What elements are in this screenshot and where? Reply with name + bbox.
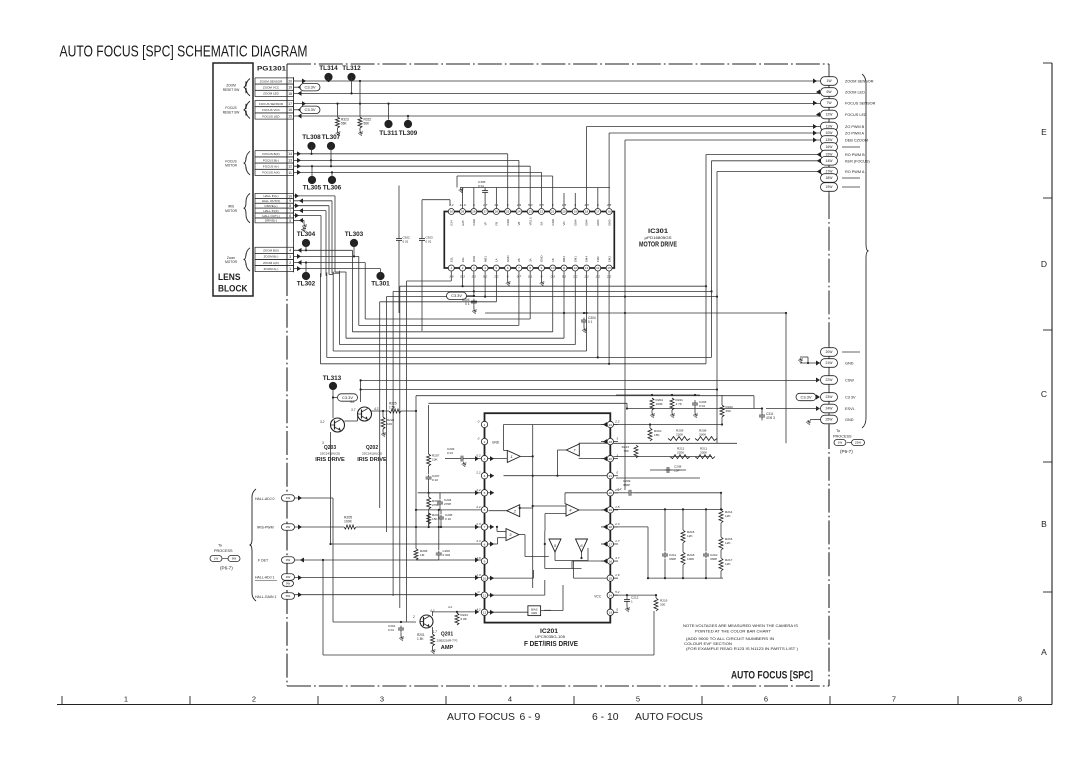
svg-text:11: 11 [483,594,486,598]
svg-text:2.2: 2.2 [475,505,481,509]
svg-text:RESET SW: RESET SW [223,110,240,114]
svg-text:2: 2 [484,440,486,444]
svg-text:DRIVE(-): DRIVE(-) [265,219,277,223]
svg-text:SA: SA [540,222,544,226]
svg-text:220K: 220K [677,451,685,455]
svg-text:TL308: TL308 [302,134,321,141]
svg-text:15K: 15K [654,433,660,437]
svg-text:18: 18 [585,210,589,214]
svg-text:TL314: TL314 [319,65,338,72]
svg-text:AUTO FOCUS: AUTO FOCUS [635,712,703,723]
svg-text:VCC: VCC [594,595,601,599]
svg-text:1: 1 [289,267,291,271]
svg-text:RO PWM A: RO PWM A [845,170,865,174]
svg-text:2.2: 2.2 [614,420,620,424]
svg-text:(FOR EXAMPLE READ R123 IS N112: (FOR EXAMPLE READ R123 IS N1123 IN PARTS… [686,646,799,651]
svg-text:8: 8 [1018,695,1022,704]
svg-text:MOTOR: MOTOR [225,209,238,213]
svg-text:3W: 3W [286,558,291,562]
svg-text:0 1: 0 1 [588,320,593,324]
svg-text:HALL OUT(X): HALL OUT(X) [262,199,281,203]
svg-text:POINTED AT THE COLOR BAR CHART: POINTED AT THE COLOR BAR CHART [695,629,772,634]
svg-text:TL309: TL309 [399,130,418,137]
svg-text:PG1301: PG1301 [257,66,287,73]
svg-text:E1L: E1L [461,256,465,262]
svg-text:3.7: 3.7 [351,408,356,412]
svg-text:LENS: LENS [218,272,241,283]
svg-text:10: 10 [288,194,292,198]
svg-text:(P6-7): (P6-7) [220,566,233,571]
svg-text:12: 12 [288,165,292,169]
svg-text:ESVL: ESVL [845,407,855,411]
svg-text:8: 8 [289,204,291,208]
svg-text:4W: 4W [286,575,291,579]
svg-text:0: 0 [616,607,618,611]
svg-text:19: 19 [574,210,578,214]
svg-text:FOCUS SENSOR: FOCUS SENSOR [259,102,284,106]
svg-text:4: 4 [484,474,486,478]
svg-text:DRIVE(+): DRIVE(+) [265,204,278,208]
svg-text:1M: 1M [420,553,425,557]
svg-text:0.2: 0.2 [476,454,481,458]
svg-text:3: 3 [616,437,618,441]
svg-text:12K: 12K [725,514,731,518]
svg-text:2SC2411K(C0): 2SC2411K(C0) [320,452,340,456]
svg-text:0 01: 0 01 [426,240,432,244]
svg-text:1: 1 [484,423,486,427]
svg-text:TL302: TL302 [297,281,316,288]
svg-text:EM2: EM2 [607,256,611,262]
svg-text:0 01: 0 01 [403,240,409,244]
svg-text:E: E [1041,127,1047,137]
svg-text:2.3: 2.3 [475,573,481,577]
svg-text:28: 28 [472,210,476,214]
svg-text:1M2: 1M2 [596,256,600,262]
svg-text:GND: GND [506,256,510,262]
svg-text:DEB CZOOM: DEB CZOOM [845,139,868,143]
svg-text:RESET SW: RESET SW [223,88,240,92]
svg-text:25W: 25W [826,418,834,422]
svg-text:18: 18 [609,525,613,529]
svg-text:19: 19 [288,86,292,90]
svg-text:ZOOM SENSOR: ZOOM SENSOR [260,79,283,83]
svg-text:22: 22 [540,210,544,214]
svg-text:1W: 1W [826,79,832,83]
svg-text:C3.3V: C3.3V [304,107,315,112]
svg-text:MOTOR DRIVE: MOTOR DRIVE [639,242,677,249]
svg-text:330: 330 [660,603,665,607]
svg-text:EM4: EM4 [596,219,600,225]
svg-text:17W: 17W [826,170,834,174]
svg-text:15: 15 [607,266,611,270]
svg-text:0: 0 [478,437,480,441]
svg-text:ZOOM VCC: ZOOM VCC [263,86,280,90]
svg-text:RSD: RSD [472,256,476,262]
svg-text:330P: 330P [623,483,630,487]
svg-text:6 - 10: 6 - 10 [592,712,619,723]
svg-text:TL311: TL311 [379,130,398,137]
svg-text:12K: 12K [725,562,731,566]
svg-text:3: 3 [616,454,618,458]
svg-text:3A: 3A [528,258,532,262]
svg-text:GEN: GEN [531,611,537,615]
svg-text:1 5K: 1 5K [389,406,396,410]
svg-text:11: 11 [288,171,292,175]
svg-text:0 01: 0 01 [478,184,484,188]
svg-text:E25: E25 [461,220,465,226]
svg-text:AMP: AMP [441,645,454,651]
svg-text:2.3: 2.3 [475,522,481,526]
svg-text:VB: VB [517,222,521,226]
svg-text:25W: 25W [855,441,861,445]
svg-text:22: 22 [609,457,613,461]
svg-text:To: To [218,544,222,548]
svg-text:14: 14 [609,594,613,598]
svg-text:PROCESS: PROCESS [833,435,852,439]
svg-text:MB1: MB1 [483,256,487,262]
svg-text:20W: 20W [826,350,834,354]
svg-text:9W: 9W [286,582,291,586]
svg-text:μPD16805GS: μPD16805GS [645,236,673,240]
svg-text:FB: FB [495,222,499,226]
svg-text:GND: GND [540,256,544,262]
svg-text:FOCUS A(X): FOCUS A(X) [262,171,279,175]
svg-text:15: 15 [609,576,613,580]
svg-text:330K: 330K [700,451,708,455]
svg-text:16: 16 [607,210,611,214]
svg-text:1W: 1W [838,441,843,445]
svg-text:0: 0 [616,471,618,475]
svg-text:HALL OUT(-): HALL OUT(-) [262,214,280,218]
svg-text:To: To [836,429,840,433]
svg-text:1.9: 1.9 [615,573,620,577]
svg-text:TL307: TL307 [322,134,341,141]
svg-text:ZOOM A(-): ZOOM A(-) [264,267,279,271]
svg-text:HALL-ADJ 1: HALL-ADJ 1 [255,576,275,580]
svg-text:3.7: 3.7 [615,556,620,560]
svg-text:21W: 21W [826,361,834,365]
svg-text:7: 7 [484,525,486,529]
svg-text:6: 6 [289,214,291,218]
svg-text:7: 7 [289,209,291,213]
svg-text:75K: 75K [623,449,629,453]
svg-text:6W: 6W [826,90,832,94]
svg-text:FOCUS B(X): FOCUS B(X) [262,152,279,156]
svg-text:IRIS DRIVE: IRIS DRIVE [315,457,345,463]
svg-text:0 10: 0 10 [445,517,451,521]
svg-text:0: 0 [478,420,480,424]
svg-text:VF: VF [483,222,487,226]
svg-text:GND: GND [472,219,476,225]
svg-text:2.2: 2.2 [475,471,481,475]
svg-text:4: 4 [289,249,291,253]
svg-text:24: 24 [609,423,613,427]
svg-text:5: 5 [289,219,291,223]
svg-text:FOCUS VCC: FOCUS VCC [262,108,281,112]
svg-text:TL306: TL306 [323,185,342,192]
svg-text:11: 11 [562,266,565,270]
svg-text:B: B [1041,519,1047,529]
svg-text:PROCESS: PROCESS [214,549,233,553]
svg-text:56K: 56K [364,122,371,126]
svg-text:1: 1 [124,695,128,704]
svg-text:FOCUS LED: FOCUS LED [845,113,867,117]
svg-text:VR2.3: VR2.3 [528,217,532,225]
svg-text:5: 5 [636,695,640,704]
svg-text:AUTO FOCUS [SPC]: AUTO FOCUS [SPC] [731,670,813,682]
svg-text:7W: 7W [826,101,832,105]
svg-text:7: 7 [892,695,896,704]
svg-text:1W: 1W [214,557,219,561]
svg-text:10K: 10K [432,458,438,462]
svg-text:12W: 12W [826,113,834,117]
svg-text:3: 3 [380,695,384,704]
svg-text:6 8K: 6 8K [461,617,468,621]
svg-text:GND: GND [506,219,510,225]
svg-text:0 01: 0 01 [699,404,705,408]
svg-text:30: 30 [450,210,454,214]
svg-text:100: 100 [387,422,392,426]
svg-text:6: 6 [484,508,486,512]
svg-text:Q203: Q203 [324,445,336,451]
svg-text:19: 19 [609,508,613,512]
svg-text:0 002: 0 002 [443,553,451,557]
svg-text:4.2: 4.2 [448,605,453,609]
svg-text:E34: E34 [450,220,454,226]
svg-text:9: 9 [289,199,291,203]
svg-text:HALL-ADJ 0: HALL-ADJ 0 [255,497,275,501]
svg-text:1W: 1W [286,496,291,500]
svg-text:4.8: 4.8 [476,556,481,560]
svg-text:5: 5 [484,491,486,495]
svg-text:2W: 2W [286,525,291,529]
svg-text:11W: 11W [826,125,834,129]
svg-text:25: 25 [506,210,510,214]
svg-text:TL304: TL304 [297,231,316,238]
svg-text:18W: 18W [826,176,834,180]
svg-text:1: 1 [631,600,633,604]
svg-text:23W: 23W [826,395,834,399]
svg-text:A: A [1041,647,1047,657]
svg-text:TL301: TL301 [371,281,390,288]
svg-text:12: 12 [483,611,487,615]
svg-text:EM4: EM4 [585,219,589,225]
svg-text:4: 4 [508,695,512,704]
svg-text:13: 13 [585,266,589,270]
svg-text:FOCUS A(-): FOCUS A(-) [263,165,279,169]
svg-text:10: 10 [551,266,555,270]
svg-text:21: 21 [609,474,613,478]
svg-text:C3.3V: C3.3V [451,293,462,298]
svg-text:6: 6 [764,695,768,704]
svg-text:ZOOM SENSOR: ZOOM SENSOR [845,80,874,84]
svg-text:1 5K: 1 5K [417,637,424,641]
svg-text:12: 12 [574,266,578,270]
svg-text:C3.3V: C3.3V [304,85,315,90]
svg-text:1.5: 1.5 [615,505,620,509]
svg-text:ZO PWM B: ZO PWM B [845,125,865,129]
svg-text:Q202: Q202 [366,445,378,451]
svg-text:56K: 56K [341,122,348,126]
svg-text:RO PWM B: RO PWM B [845,153,865,157]
svg-text:10W: 10W [826,131,834,135]
svg-text:GND: GND [492,441,500,445]
svg-text:HALL IN(X): HALL IN(X) [263,209,278,213]
svg-text:8: 8 [484,542,486,546]
svg-text:FOCUS LED: FOCUS LED [262,114,280,118]
svg-text:22W: 22W [826,378,834,382]
svg-text:330P: 330P [669,557,676,561]
svg-text:0 01: 0 01 [388,628,394,632]
svg-text:13: 13 [288,158,292,162]
svg-text:16: 16 [609,559,613,563]
svg-text:27: 27 [483,210,487,214]
svg-text:14: 14 [596,266,600,270]
svg-text:C3.3V: C3.3V [800,394,811,399]
svg-text:12K: 12K [725,541,731,545]
svg-text:F DET: F DET [258,559,269,563]
svg-text:AUTO FOCUS [SPC] SCHEMATIC DIA: AUTO FOCUS [SPC] SCHEMATIC DIAGRAM [60,44,308,61]
svg-text:EM4: EM4 [585,256,589,262]
svg-text:21: 21 [551,210,555,214]
svg-text:NOTE:VOLTAGES ARE MEASURED WHE: NOTE:VOLTAGES ARE MEASURED WHEN THE CAME… [683,623,798,628]
svg-text:6W: 6W [232,557,237,561]
svg-text:10: 10 [483,576,487,580]
svg-text:2SB2216R-T70: 2SB2216R-T70 [437,639,458,643]
svg-text:ZOOM LED: ZOOM LED [845,91,865,95]
svg-text:24W: 24W [826,407,834,411]
svg-text:C3 3V: C3 3V [845,396,856,400]
svg-text:(P6-7): (P6-7) [840,449,853,454]
svg-text:TL313: TL313 [323,375,342,382]
svg-text:20: 20 [562,210,566,214]
svg-text:TL312: TL312 [342,65,361,72]
svg-text:5.2: 5.2 [615,590,620,594]
svg-text:GND: GND [845,362,854,366]
svg-text:KER (FOCUS): KER (FOCUS) [845,159,870,163]
svg-text:BLOCK: BLOCK [218,284,248,295]
svg-text:CSW: CSW [845,379,854,383]
svg-text:EM4: EM4 [573,219,577,225]
svg-text:3: 3 [289,255,291,259]
svg-text:Q201: Q201 [441,632,453,638]
svg-text:29: 29 [461,210,465,214]
svg-text:330P: 330P [710,557,717,561]
svg-text:0 22: 0 22 [432,478,438,482]
svg-text:0 01: 0 01 [447,451,453,455]
svg-text:ZO PWM A: ZO PWM A [845,132,864,136]
svg-text:ZOOM LED: ZOOM LED [263,92,280,96]
svg-text:14W: 14W [826,159,834,163]
svg-text:IC201: IC201 [540,628,558,635]
svg-text:C: C [1041,389,1047,399]
svg-text:4.2: 4.2 [476,607,481,611]
svg-text:20: 20 [288,79,292,83]
svg-text:EM1: EM1 [573,256,577,262]
svg-text:LB: LB [551,258,555,262]
svg-text:15: 15 [288,114,292,118]
svg-text:AUTO FOCUS: AUTO FOCUS [447,712,515,723]
svg-text:TL305: TL305 [303,185,322,192]
svg-text:2.2: 2.2 [616,487,622,491]
svg-text:1.7: 1.7 [433,630,438,634]
svg-text:20: 20 [609,491,613,495]
svg-text:D: D [1041,259,1047,269]
svg-text:3: 3 [484,457,486,461]
svg-text:17: 17 [288,102,292,106]
svg-text:26: 26 [495,210,499,214]
svg-text:ZOOM B(X): ZOOM B(X) [263,249,279,253]
svg-text:4.3: 4.3 [374,407,379,411]
svg-text:5W: 5W [286,594,291,598]
svg-text:IRIS DRIVE: IRIS DRIVE [357,457,387,463]
svg-text:2: 2 [412,615,415,619]
svg-text:12K: 12K [687,534,693,538]
svg-text:16W: 16W [826,145,834,149]
svg-text:GND: GND [845,418,854,422]
svg-text:HALL-GAIN 1: HALL-GAIN 1 [255,595,276,599]
svg-text:13: 13 [609,611,613,615]
svg-text:5.2: 5.2 [350,400,355,404]
svg-text:2.3: 2.3 [475,539,481,543]
svg-text:HALL IN(+): HALL IN(+) [264,194,279,198]
svg-text:2SC2411K(C0): 2SC2411K(C0) [362,452,382,456]
svg-text:0: 0 [478,590,480,594]
svg-text:47/6 3: 47/6 3 [766,416,775,420]
svg-text:100K: 100K [344,520,353,524]
svg-text:1A: 1A [495,258,499,262]
svg-text:17: 17 [596,210,600,214]
svg-text:6 - 9: 6 - 9 [520,712,541,723]
svg-text:IC301: IC301 [648,228,668,235]
svg-text:270P: 270P [444,502,451,506]
svg-text:23: 23 [609,440,613,444]
svg-text:100K: 100K [656,402,664,406]
svg-text:ZOOM B(-): ZOOM B(-) [264,255,279,259]
svg-text:14: 14 [288,152,292,156]
svg-text:EM3: EM3 [607,219,611,225]
svg-text:MOTOR: MOTOR [225,260,238,264]
svg-text:MB4: MB4 [562,256,566,262]
svg-text:3.2: 3.2 [320,420,325,424]
svg-text:390: 390 [726,409,731,413]
svg-text:9: 9 [484,559,486,563]
svg-text:0 1: 0 1 [465,302,470,306]
svg-text:24: 24 [517,210,521,214]
svg-text:19W: 19W [826,185,834,189]
svg-text:IRIS-PWM: IRIS-PWM [257,526,274,530]
svg-text:4 7K: 4 7K [676,402,683,406]
svg-text:TL303: TL303 [345,231,364,238]
svg-text:23: 23 [529,210,533,214]
svg-text:1.7: 1.7 [615,539,620,543]
svg-text:16: 16 [288,108,292,112]
svg-text:VD: VD [562,221,566,225]
svg-text:17: 17 [609,542,613,546]
svg-text:100K: 100K [687,557,695,561]
svg-text:GND: GND [551,219,555,225]
svg-text:2B: 2B [517,258,521,262]
svg-text:1: 1 [511,454,513,459]
svg-text:UPC9035G-105: UPC9035G-105 [535,635,565,639]
svg-text:2: 2 [252,695,256,704]
svg-text:15P: 15P [674,469,680,473]
svg-text:ZOOM A(X): ZOOM A(X) [263,261,279,265]
svg-text:FOCUS SENSOR: FOCUS SENSOR [845,102,876,106]
svg-text:FOCUS B(-): FOCUS B(-) [263,158,279,162]
svg-text:15K: 15K [432,517,438,521]
svg-text:2.3: 2.3 [614,522,620,526]
